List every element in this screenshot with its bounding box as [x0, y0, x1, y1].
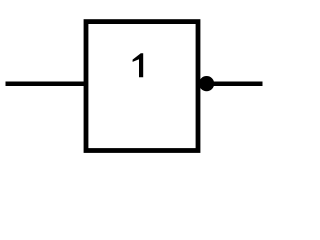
inverter gate U1 (IEC "1" NOT gate symbol) — [0, 0, 275, 177]
inversion bubble — [199, 76, 214, 91]
wire (input, left) — [6, 82, 87, 87]
gate body (rectangle) — [86, 22, 198, 151]
wire (output, right) — [212, 82, 263, 87]
value label "1" — [133, 53, 144, 77]
